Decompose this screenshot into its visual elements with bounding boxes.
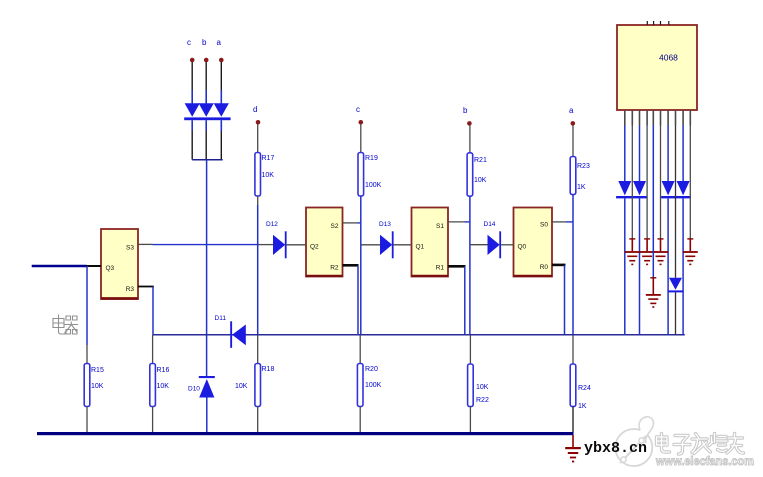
wire b lead black xyxy=(205,62,207,90)
wire stub below bar 2 xyxy=(205,120,207,131)
svg-text:D12: D12 xyxy=(266,221,278,228)
terminal dot a xyxy=(219,58,224,63)
wire R3 drop xyxy=(152,287,154,335)
terminal dot d xyxy=(256,120,261,125)
wire pin4 xyxy=(646,126,648,239)
svg-text:R15: R15 xyxy=(91,367,104,374)
main bottom bus xyxy=(37,432,574,435)
svg-text:c: c xyxy=(356,105,360,114)
wire Q3 R3 stub black xyxy=(138,286,154,288)
svg-text:10K: 10K xyxy=(474,177,487,184)
wire left input to Q3 blue xyxy=(32,265,87,267)
svg-text:D14: D14 xyxy=(484,221,496,228)
wire a lead blue xyxy=(220,90,222,104)
bracket wire joining LED leads xyxy=(192,159,223,161)
svg-text:1K: 1K xyxy=(578,403,587,410)
diode pair2 bar xyxy=(661,196,691,198)
svg-text:Q1: Q1 xyxy=(416,244,425,251)
svg-text:10K: 10K xyxy=(476,384,489,391)
wire rail d bottom xyxy=(257,407,259,433)
wire pin7 lower xyxy=(667,198,669,334)
wire pin6 xyxy=(660,126,662,239)
svg-text:R24: R24 xyxy=(578,385,591,392)
svg-text:S3: S3 xyxy=(126,245,134,252)
flip-flop box Q2 xyxy=(306,208,343,277)
resistor R17 xyxy=(255,153,261,197)
LED triangle 3 xyxy=(214,103,229,117)
svg-text:a: a xyxy=(217,38,222,47)
svg-text:10K: 10K xyxy=(235,383,248,390)
svg-text:b: b xyxy=(463,106,468,115)
LED triangle 2 xyxy=(199,103,214,117)
wire R16 bottom xyxy=(152,407,154,433)
svg-text:R22: R22 xyxy=(476,397,489,404)
wire chain rail b to D14 xyxy=(470,244,489,246)
svg-text:S0: S0 xyxy=(540,222,548,229)
wire horizontal mid bus y334 xyxy=(153,334,685,336)
svg-text:R2: R2 xyxy=(330,265,339,272)
wire R2 stub black xyxy=(343,264,359,267)
diode D8 on pin8 xyxy=(669,278,682,290)
wire rail b upper xyxy=(469,125,471,152)
wire S2 stub xyxy=(343,222,358,224)
wire pin8 lower xyxy=(675,292,677,334)
wire pin1 upper xyxy=(624,126,626,182)
svg-text:Q0: Q0 xyxy=(518,244,527,251)
wire pin8 upper xyxy=(675,126,677,278)
resistor R16 xyxy=(150,364,156,407)
svg-text:10K: 10K xyxy=(262,172,275,179)
wire pin1 lower xyxy=(624,198,626,334)
wire rail c upper xyxy=(360,124,362,152)
wire rail b lower xyxy=(469,335,471,364)
resistor R21 xyxy=(467,153,473,196)
wire rail a bottom black xyxy=(572,407,574,433)
wire R16 upper xyxy=(152,335,154,364)
svg-text:d: d xyxy=(253,105,257,114)
wire R2 drop xyxy=(357,265,359,335)
wire pin3 upper xyxy=(639,126,641,182)
terminal dot c xyxy=(190,58,195,63)
wire R0 stub black xyxy=(552,264,566,267)
wire pin3 lower xyxy=(639,198,641,334)
wire rail c bottom xyxy=(359,407,361,433)
wire chain S3 to D12 xyxy=(153,244,260,246)
wire rail d middle xyxy=(257,196,259,205)
svg-text:10K: 10K xyxy=(91,383,104,390)
IC top ticks xyxy=(646,21,648,25)
ground pin6 xyxy=(653,238,668,265)
svg-text:D13: D13 xyxy=(379,221,391,228)
diode pair2 left xyxy=(662,181,675,195)
wire D10 to bus xyxy=(206,398,208,433)
terminal dot a chain xyxy=(571,121,576,126)
svg-text:R18: R18 xyxy=(262,366,275,373)
svg-text:ybx8.cn: ybx8.cn xyxy=(584,440,647,457)
svg-text:www.elecfans.com: www.elecfans.com xyxy=(655,454,754,468)
diode pair1 left xyxy=(618,181,631,195)
wire R15 bottom xyxy=(86,407,88,433)
wire rail b bottom xyxy=(469,407,471,433)
wire black mid 1 xyxy=(191,131,193,160)
svg-text:R23: R23 xyxy=(577,163,590,170)
wire rail c lower xyxy=(359,334,361,364)
wire D14 to Q0 xyxy=(501,244,513,246)
ground pin5 xyxy=(646,277,661,308)
flip-flop box Q3 xyxy=(101,229,138,299)
svg-text:D11: D11 xyxy=(215,315,227,322)
wire S0 stub xyxy=(552,221,566,223)
wire left input to Q3 black xyxy=(86,265,101,267)
wire pin2 xyxy=(631,126,633,239)
wire stub below bar 3 xyxy=(220,120,222,131)
svg-text:R3: R3 xyxy=(126,286,135,293)
svg-text:Q2: Q2 xyxy=(310,244,319,251)
wire rail c middle xyxy=(360,196,362,334)
IC pin stubs bottom (gray) xyxy=(625,110,691,126)
svg-text:D10: D10 xyxy=(188,386,200,393)
resistor R20 xyxy=(357,364,363,407)
svg-text:R21: R21 xyxy=(474,157,487,164)
wire D12 to Q2 xyxy=(287,244,306,246)
svg-text:c: c xyxy=(187,38,191,47)
ground at bus end xyxy=(572,435,574,447)
wire c lead blue xyxy=(191,90,193,104)
diode pair1 bar xyxy=(616,196,647,198)
wire left drop to R15 xyxy=(86,266,88,345)
svg-text:100K: 100K xyxy=(365,382,382,389)
wire rail a lower xyxy=(572,335,574,364)
elecfans watermark logo circle xyxy=(615,417,653,466)
wire black mid 2 xyxy=(205,131,207,160)
resistor R15 xyxy=(84,364,90,407)
wire mid rail down from LEDs xyxy=(206,160,208,376)
ground pin10 xyxy=(683,238,698,265)
svg-text:1K: 1K xyxy=(577,184,586,191)
svg-text:a: a xyxy=(569,106,574,115)
LED triangle 1 xyxy=(185,103,200,117)
resistor R22 xyxy=(468,364,474,407)
resistor R19 xyxy=(358,153,364,197)
svg-text:R0: R0 xyxy=(540,264,549,271)
resistor R23 xyxy=(570,157,576,195)
flip-flop box Q1 xyxy=(412,208,449,277)
wire pin10 xyxy=(689,126,691,239)
svg-text:100K: 100K xyxy=(365,182,382,189)
wire stub below bar 1 xyxy=(191,120,193,131)
wire pin9 upper xyxy=(682,126,684,182)
wire R1 drop xyxy=(464,266,466,335)
resistor R24 xyxy=(570,364,576,407)
wire chain rail c to D13 xyxy=(361,244,382,246)
svg-text:S1: S1 xyxy=(436,223,444,230)
svg-text:R17: R17 xyxy=(262,155,275,162)
svg-text:R19: R19 xyxy=(365,155,378,162)
resistor R18 xyxy=(255,364,261,407)
flip-flop box Q0 xyxy=(514,208,553,277)
wire R0 drop xyxy=(564,265,566,335)
svg-text:R1: R1 xyxy=(436,265,445,272)
wire pin5 xyxy=(652,126,654,278)
svg-text:Q3: Q3 xyxy=(106,265,115,272)
ground pin2 xyxy=(625,238,640,265)
wire rail d upper xyxy=(257,124,259,152)
wire rail a middle xyxy=(572,195,574,335)
wire S3 output stub xyxy=(138,243,153,245)
wire D13 to Q1 xyxy=(394,244,412,246)
wire rail a upper xyxy=(572,125,574,156)
wire b lead blue xyxy=(205,90,207,104)
wire c lead black xyxy=(191,62,193,90)
wire pin7 upper xyxy=(667,126,669,182)
svg-text:10K: 10K xyxy=(157,383,170,390)
svg-text:R20: R20 xyxy=(365,366,378,373)
text 电器 watermark left xyxy=(53,315,78,335)
wire rail b middle xyxy=(469,196,471,335)
IC U1 4068 xyxy=(617,25,697,110)
wire S1 stub xyxy=(448,221,465,223)
diode pair1 right xyxy=(633,181,646,195)
watermark text 电子发烧友 xyxy=(657,434,744,455)
wire rail d lower xyxy=(257,334,259,364)
terminal dot b chain xyxy=(467,121,472,126)
terminal dot c chain xyxy=(359,120,364,125)
wire black mid 3 xyxy=(220,131,222,160)
LED cathode bar xyxy=(184,117,230,120)
terminal dot b xyxy=(204,58,209,63)
diode pair2 right xyxy=(677,181,690,195)
svg-text:S2: S2 xyxy=(331,223,339,230)
wire a lead black xyxy=(220,62,222,90)
svg-text:b: b xyxy=(202,38,207,47)
svg-text:4068: 4068 xyxy=(659,53,678,63)
ground pin4 xyxy=(640,238,655,265)
wire pin9 lower xyxy=(682,198,684,334)
wire R1 stub black xyxy=(448,265,466,268)
svg-text:R16: R16 xyxy=(157,367,170,374)
